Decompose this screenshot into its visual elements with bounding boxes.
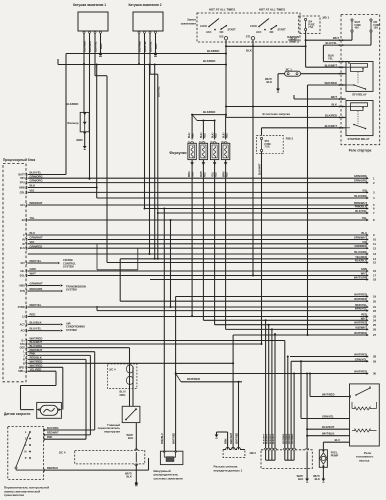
- svg-text:BLK/: BLK/: [189, 132, 191, 138]
- wire WHT/RED from EFI relay: [308, 84, 342, 86]
- svg-text:7.5A: 7.5A: [265, 146, 270, 149]
- svg-text:Процессорный блок: Процессорный блок: [3, 158, 36, 162]
- wire GRN/YEL to connector pin 29: [291, 360, 368, 362]
- svg-text:YEL: YEL: [328, 57, 333, 61]
- wire coil1 pin1 BLK/RED: [83, 33, 85, 63]
- svg-text:ACI: ACI: [20, 330, 25, 333]
- wire BLK/YEL to connector pin 7: [158, 212, 368, 214]
- wire BLK/WHT into fuel pump relay: [307, 428, 349, 430]
- svg-text:7.5A: 7.5A: [308, 26, 313, 29]
- wire coil2 pin4 BRN: [155, 33, 157, 52]
- svg-text:PNK: PNK: [47, 436, 52, 439]
- svg-text:RED: RED: [361, 313, 367, 317]
- svg-text:BLK/YEL: BLK/YEL: [355, 209, 367, 213]
- wire OD2 BLU/ORG to OD switch: [28, 347, 130, 349]
- vacuum distributor of ignition system: [160, 451, 183, 464]
- svg-text:PNK/BLK: PNK/BLK: [355, 205, 367, 209]
- svg-text:SP1: SP1: [20, 177, 25, 180]
- svg-text:LOCK: LOCK: [200, 25, 207, 28]
- svg-text:BLK: BLK: [128, 436, 133, 440]
- svg-text:WHT: WHT: [331, 95, 337, 99]
- wire WHT/BLK J/C1 to ground: [278, 73, 285, 75]
- wires WHT/RED into J/B2: [284, 341, 286, 449]
- wire RED/BLK from trans switch: [44, 469, 149, 471]
- svg-text:BLK: BLK: [315, 477, 320, 481]
- wire ST1 BLK drop: [252, 40, 254, 276]
- svg-text:BRN: BRN: [100, 43, 103, 49]
- svg-text:WHT: WHT: [291, 40, 297, 44]
- svg-text:Фильтр: Фильтр: [67, 121, 78, 125]
- svg-text:OD2: OD2: [20, 347, 26, 350]
- svg-text:VIO/WHT: VIO/WHT: [355, 325, 367, 329]
- svg-text:BLK/RED: BLK/RED: [83, 41, 86, 52]
- svg-text:WHT/RED: WHT/RED: [235, 433, 238, 444]
- terminal ST1: [251, 37, 254, 40]
- ground under filter: [83, 146, 87, 149]
- wire BLK/WHT STA vertical to ECU: [261, 152, 263, 344]
- svg-text:15A: 15A: [374, 27, 379, 30]
- wire HSW BLK join: [28, 187, 97, 189]
- wire BLK/YEL from EFI fuse: [341, 44, 371, 46]
- svg-text:SPD-: SPD-: [19, 366, 25, 369]
- injector feed branches: [192, 115, 197, 121]
- svg-text:RED: RED: [216, 133, 218, 138]
- svg-text:ELS: ELS: [20, 247, 25, 250]
- svg-text:J/B 2: J/B 2: [249, 451, 256, 455]
- svg-text:28: 28: [373, 355, 377, 359]
- svg-text:RED: RED: [227, 133, 229, 138]
- junction HSW on riser x96.7: [96, 187, 98, 189]
- wire VIO/WHT to connector pin 26: [226, 328, 368, 330]
- svg-text:перегрузки: перегрузки: [104, 429, 120, 433]
- svg-text:BLK/ORG: BLK/ORG: [47, 427, 59, 430]
- svg-text:BLU/ORG: BLU/ORG: [354, 250, 367, 254]
- svg-text:BLK/RED: BLK/RED: [138, 41, 141, 52]
- wire BLK/BLU to connector pin 15: [107, 262, 368, 264]
- svg-text:J/C 4: J/C 4: [59, 450, 66, 454]
- wire SPD- to speed sensor: [28, 366, 63, 368]
- overdrive main switch: [122, 406, 140, 422]
- svg-text:Катушка зажигания 2: Катушка зажигания 2: [128, 3, 161, 7]
- junction ST1 on row 17: [252, 275, 254, 277]
- svg-text:START: START: [278, 29, 287, 32]
- svg-text:BLK: BLK: [246, 49, 252, 53]
- svg-text:18: 18: [373, 278, 377, 282]
- wire WHT/BLK to EFI relay: [301, 73, 341, 75]
- svg-text:START: START: [228, 29, 237, 32]
- fuel pump: [319, 450, 327, 468]
- svg-text:GRN/RED: GRN/RED: [354, 244, 367, 248]
- wire WHT: [305, 39, 307, 41]
- wire GRN/YEL into fuel pump relay: [301, 418, 350, 420]
- svg-text:YEL/RED: YEL/RED: [355, 255, 367, 259]
- data link connector 1: [223, 448, 245, 450]
- svg-text:ORG: ORG: [192, 172, 194, 177]
- svg-text:WHT/RED: WHT/RED: [354, 353, 367, 357]
- wire stub row22: [96, 306, 98, 311]
- fuel pump relay coil 1: [355, 407, 370, 410]
- svg-text:P1SW: P1SW: [18, 306, 26, 309]
- wire BLK/RED to starter relay: [226, 116, 341, 118]
- injector 1 down wire: [191, 160, 193, 316]
- injector 2 down wire: [202, 160, 204, 321]
- svg-text:BLK/YEL: BLK/YEL: [149, 41, 152, 52]
- svg-text:ACC: ACC: [256, 31, 262, 34]
- svg-text:15: 15: [373, 261, 377, 265]
- wire WHT to connector pin 24: [203, 319, 368, 321]
- svg-text:BLK/RED: BLK/RED: [203, 59, 215, 63]
- svg-text:BLK/YEL: BLK/YEL: [94, 41, 97, 52]
- svg-text:CRL: CRL: [20, 191, 26, 194]
- wire BLU fuel pump to relay: [322, 442, 324, 450]
- svg-text:BRN/YEL: BRN/YEL: [355, 307, 367, 311]
- svg-text:WHT/RED: WHT/RED: [292, 433, 294, 444]
- svg-text:29: 29: [373, 360, 377, 364]
- svg-text:STARTER RELAY: STARTER RELAY: [348, 137, 370, 141]
- injector outlet arrows: [190, 162, 194, 165]
- svg-text:J/B 1: J/B 1: [322, 16, 330, 20]
- svg-text:WHT/RED: WHT/RED: [283, 433, 285, 444]
- wire GRN/WHT to connector pin 10: [28, 239, 368, 241]
- svg-text:ACT: ACT: [20, 323, 26, 326]
- svg-text:BLK/WHT: BLK/WHT: [270, 433, 272, 444]
- svg-text:RED: RED: [227, 172, 229, 177]
- svg-text:SYSTEM: SYSTEM: [63, 265, 74, 269]
- wire riser x120 row14 to row20: [119, 259, 121, 301]
- wire IG2 BLK/RED drop: [225, 40, 227, 118]
- wire second through J/C4: [132, 367, 134, 407]
- svg-text:WHT/RED: WHT/RED: [173, 433, 176, 444]
- svg-text:24: 24: [373, 319, 377, 323]
- svg-text:RED/WHT: RED/WHT: [230, 432, 233, 444]
- svg-text:HE-: HE-: [20, 270, 24, 273]
- wire BLK/WHT STA fuse to relay: [261, 128, 263, 136]
- ground at coil 2: [154, 53, 157, 56]
- svg-text:В системе запуска: В системе запуска: [263, 112, 291, 116]
- wire BRN/YEL to connector pin 22: [97, 310, 368, 312]
- wire VIO to connector pin 11: [28, 243, 368, 245]
- transmission switch pins: [44, 428, 45, 431]
- svg-text:SPD+: SPD+: [18, 370, 25, 373]
- wire riser x154.7 to row 14: [154, 65, 156, 259]
- svg-text:HOT AT ALL TIMES: HOT AT ALL TIMES: [259, 8, 285, 12]
- wire R RED/BLK riser: [28, 358, 86, 360]
- wire BLK/WHT to EFI relay: [306, 66, 341, 68]
- wire coil1 pin2 BLK/BLU: [89, 33, 91, 179]
- wire BLK/RED injector bus: [192, 114, 226, 116]
- svg-text:BLK/WHT: BLK/WHT: [322, 425, 335, 429]
- svg-text:B: B: [23, 362, 25, 365]
- wire WHT/GRN to connector pin 18: [150, 279, 368, 281]
- svg-text:WHT/RED: WHT/RED: [354, 321, 367, 325]
- svg-text:RED: RED: [216, 172, 218, 177]
- wire J/B2 to ground: [306, 469, 308, 479]
- svg-text:трансмиссии: трансмиссии: [4, 493, 24, 497]
- svg-text:GRN/ORG: GRN/ORG: [354, 174, 367, 178]
- svg-text:AWS: AWS: [19, 285, 25, 288]
- wire WHT/RED to connector pin 20: [120, 300, 368, 302]
- svg-text:P: P: [25, 456, 27, 460]
- svg-text:WHT/RED: WHT/RED: [286, 433, 288, 444]
- svg-text:Катушка зажигания 1: Катушка зажигания 1: [73, 3, 106, 7]
- svg-text:системы зажигания: системы зажигания: [154, 476, 184, 480]
- wire WHT to connector pin 17: [28, 275, 368, 277]
- wire WHT/RED into fuel pump relay: [310, 396, 350, 398]
- svg-text:16: 16: [373, 269, 377, 273]
- junction coil1 pin2 on row SP1: [89, 178, 91, 180]
- svg-text:19: 19: [373, 295, 377, 299]
- noise filter: [83, 65, 85, 113]
- svg-text:BLK/RED: BLK/RED: [207, 49, 219, 53]
- svg-text:27: 27: [373, 333, 377, 337]
- fuel pump relay coil 2: [355, 429, 370, 432]
- wire PNK/BLU riser to distributor: [163, 209, 165, 452]
- svg-text:BLK/WHT: BLK/WHT: [273, 433, 275, 444]
- svg-text:BLK: BLK: [127, 475, 132, 479]
- ground near data link: [215, 435, 219, 438]
- svg-text:BLK/BLU: BLK/BLU: [89, 41, 92, 52]
- wire VIO to connector pin 3: [28, 191, 368, 193]
- wire ACT to air conditioning system: [28, 323, 60, 325]
- svg-text:RED: RED: [204, 133, 206, 138]
- wire BLK/WHT from IG4 fuse: [305, 31, 307, 68]
- fuse WHT 40A: [351, 19, 353, 21]
- svg-text:ORG: ORG: [120, 393, 126, 397]
- wire 2 PNK riser: [28, 354, 91, 356]
- svg-text:RED: RED: [204, 172, 206, 177]
- wire WHT/RED to connector pin 27: [233, 334, 368, 336]
- svg-text:40A: 40A: [355, 27, 360, 30]
- wire STA BLK/WHT row: [28, 343, 262, 345]
- junction block J/B no.1: [299, 16, 320, 34]
- svg-text:RED/WHT: RED/WHT: [47, 432, 59, 435]
- wire ACI to air conditioning system: [28, 330, 60, 332]
- wire BLK/WHT to starter relay: [262, 127, 342, 129]
- svg-text:BRN/WHT: BRN/WHT: [354, 201, 367, 205]
- injector 4 down wire: [225, 160, 227, 330]
- wire IGT to cruise control system: [28, 262, 57, 264]
- svg-text:Реле стартера: Реле стартера: [349, 149, 372, 153]
- svg-text:BLU: BLU: [335, 438, 340, 442]
- wire WHT/RED to connector pin 28: [290, 356, 368, 358]
- svg-text:BLK/WHT: BLK/WHT: [267, 433, 269, 444]
- wire B+ WHT/RED row: [28, 340, 285, 342]
- speed sensor: [37, 402, 62, 418]
- wire BLK/RED bus upper: [66, 53, 226, 55]
- junction coil2 BLK/YEL on row 7: [157, 212, 159, 214]
- svg-text:STA: STA: [20, 343, 25, 346]
- wire L RED/WHT riser: [28, 351, 95, 353]
- svg-text:WHT/RED: WHT/RED: [187, 377, 200, 381]
- svg-text:J/C 4: J/C 4: [109, 368, 116, 372]
- svg-text:SYSTEM: SYSTEM: [66, 288, 77, 292]
- svg-text:LOCK: LOCK: [250, 25, 257, 28]
- fuse IG4 7.5A: [305, 18, 307, 20]
- svg-text:12: 12: [373, 246, 377, 250]
- svg-text:WHT: WHT: [361, 272, 368, 276]
- svg-text:WHT/RED: WHT/RED: [354, 331, 367, 335]
- svg-text:Датчик скорости: Датчик скорости: [4, 412, 30, 416]
- wire WHT/RED to connector pin 19: [176, 296, 368, 298]
- wire WHT/BLK into fuel pump relay: [307, 435, 349, 437]
- svg-text:TFN: TFN: [20, 290, 25, 293]
- svg-text:SOL: SOL: [20, 275, 26, 278]
- wire BLK/RED bus lower: [58, 64, 226, 66]
- wire BATT join: [28, 174, 66, 176]
- wire WHT/RED to data link: [238, 382, 240, 450]
- svg-text:RED/BLK: RED/BLK: [47, 467, 58, 470]
- wire BLK to starter relay: [226, 106, 341, 108]
- wire WHT/RED long vertical: [307, 85, 309, 335]
- svg-text:RED/YEL: RED/YEL: [355, 303, 367, 307]
- ground under fuel pump: [322, 479, 326, 482]
- wire WHT/RED riser to distributor: [175, 297, 177, 452]
- wire RED/WHT to data link: [232, 335, 234, 450]
- svg-text:BLK/WHT: BLK/WHT: [325, 124, 338, 128]
- wire RED/YEL to connector pin 21: [28, 306, 368, 308]
- svg-text:BLU: BLU: [361, 231, 367, 235]
- svg-text:WHT: WHT: [333, 36, 339, 40]
- svg-text:GRN/WHT: GRN/WHT: [354, 236, 367, 240]
- svg-text:HOT AT ALL TIMES: HOT AT ALL TIMES: [209, 8, 235, 12]
- wire WHT/BLK to ground under OD switch: [135, 464, 137, 482]
- wire coil2 pin3 BLK/YEL: [149, 33, 151, 74]
- svg-text:WHT: WHT: [361, 316, 368, 320]
- svg-text:передачи данных 1: передачи данных 1: [214, 468, 243, 472]
- svg-text:BLK/RED: BLK/RED: [203, 110, 215, 114]
- injector 3 down wire: [214, 160, 216, 325]
- svg-text:ACC: ACC: [206, 31, 212, 34]
- wire BLU to connector pin 9: [28, 234, 368, 236]
- svg-text:BLK/: BLK/: [212, 132, 214, 138]
- svg-text:BATT: BATT: [18, 174, 25, 177]
- svg-text:BLK/WHT: BLK/WHT: [325, 63, 338, 67]
- svg-text:WHT/RED: WHT/RED: [324, 81, 337, 85]
- svg-text:насоса: насоса: [359, 458, 370, 462]
- wire GRN/RED to connector pin 12: [28, 247, 368, 249]
- svg-text:ON: ON: [270, 31, 274, 34]
- svg-text:13: 13: [373, 252, 377, 256]
- wire WHT/RED to connector pin 30: [176, 373, 368, 375]
- J/B2 pin bumps: [264, 448, 267, 450]
- svg-text:N: N: [25, 450, 27, 454]
- wire GRN/ORG to connector pin 1: [28, 177, 368, 179]
- svg-text:Форсунки: Форсунки: [169, 151, 186, 155]
- wire riser x170.5 row8 to row21: [170, 220, 172, 307]
- wire YEL/RED to connector pin 14: [120, 258, 368, 260]
- ground under J/C1: [276, 89, 280, 92]
- svg-text:WHT/RED: WHT/RED: [354, 293, 367, 297]
- svg-text:SYSTEM: SYSTEM: [66, 328, 77, 332]
- svg-text:IN: IN: [22, 239, 25, 242]
- harness dashed box right: [341, 15, 380, 145]
- svg-text:GRN/YEL: GRN/YEL: [322, 414, 334, 418]
- wire WHT/BLK from OD switch: [135, 423, 137, 451]
- wire coil2 pin1 BLK/RED: [138, 33, 140, 63]
- wire WHT/RED branch bus: [176, 374, 181, 382]
- wire coil1 pin4 BRN: [100, 33, 102, 52]
- wire TFN to transmission system: [28, 290, 60, 292]
- svg-text:R/B 3: R/B 3: [286, 137, 294, 141]
- fuse STA 7.5A in R/B no.3: [257, 136, 284, 154]
- svg-text:BLK/YEL: BLK/YEL: [157, 86, 160, 97]
- svg-text:BLK/WHT: BLK/WHT: [264, 433, 266, 444]
- svg-text:зажигания: зажигания: [181, 22, 197, 26]
- svg-text:BRN: BRN: [155, 43, 158, 49]
- wire drop x96.7: [96, 65, 98, 199]
- svg-text:22: 22: [373, 309, 377, 313]
- svg-text:11: 11: [373, 242, 376, 246]
- wire SPD+ loop to speed sensor: [28, 370, 56, 372]
- svg-text:GRN/ORG: GRN/ORG: [354, 179, 367, 183]
- EFI relay: [346, 62, 373, 92]
- terminal IG2: [224, 37, 227, 40]
- wire drop to ECU BATT: [65, 54, 67, 175]
- svg-text:PUMP: PUMP: [331, 454, 339, 458]
- wire BLK/WHT switch feed: [226, 45, 306, 47]
- wire PNK/BLK to connector pin 6: [145, 208, 369, 210]
- wire RED to connector pin 23: [28, 316, 368, 318]
- svg-text:BLK: BLK: [298, 477, 303, 481]
- svg-text:WHT/GRN: WHT/GRN: [354, 276, 367, 280]
- svg-text:BLK/WHT: BLK/WHT: [258, 163, 261, 175]
- svg-text:FPU: FPU: [20, 182, 25, 185]
- wire coil2 pin2 BRN/YEL: [144, 33, 146, 208]
- J/B2 bus bar 1: [265, 450, 267, 460]
- wire filter BRN to ground: [84, 132, 86, 146]
- wire coil1 pin3 BLK/YEL: [94, 33, 96, 75]
- svg-text:BLK/BLU: BLK/BLU: [355, 259, 367, 263]
- svg-text:WHT/RED: WHT/RED: [354, 297, 367, 301]
- fuse EFI 15A: [370, 19, 372, 21]
- svg-text:BLK/RED: BLK/RED: [66, 102, 78, 106]
- svg-text:BLK/ORG: BLK/ORG: [354, 194, 367, 198]
- svg-text:BRN/: BRN/: [189, 171, 191, 177]
- svg-text:HSW: HSW: [19, 187, 25, 190]
- fuel pump relay: [350, 384, 380, 446]
- svg-text:WHT/RED: WHT/RED: [322, 392, 335, 396]
- wire AWS to transmission system: [28, 285, 60, 287]
- svg-text:BRN/YEL: BRN/YEL: [144, 41, 147, 52]
- svg-text:R: R: [23, 358, 25, 361]
- svg-text:30: 30: [373, 372, 377, 376]
- svg-text:BLK/YEL: BLK/YEL: [326, 41, 338, 45]
- wire YEL to connector pin 8: [28, 219, 368, 221]
- transmission indicator switch box: [8, 427, 44, 480]
- starter relay: [346, 101, 373, 136]
- junction coil2 pin2 on row PNK/BLK: [144, 208, 146, 210]
- svg-text:RED: RED: [192, 133, 194, 138]
- wire BRN from data link to ground: [227, 432, 229, 450]
- ground under OD switch: [135, 482, 138, 485]
- svg-text:IG2: IG2: [219, 35, 224, 39]
- wires BLK/WHT into J/B2: [265, 320, 267, 448]
- wire J/B2 right riser: [306, 374, 308, 449]
- wire B WHT/RED join to data link riser: [28, 362, 233, 364]
- svg-text:20: 20: [373, 299, 377, 303]
- svg-text:WHT/BLK: WHT/BLK: [322, 432, 334, 436]
- svg-text:25: 25: [373, 323, 377, 327]
- svg-text:GRN/YEL: GRN/YEL: [355, 357, 368, 361]
- ground at coil 1: [99, 53, 102, 56]
- svg-text:BLK: BLK: [267, 80, 273, 84]
- wire riser x149.5 to row 13: [149, 65, 151, 255]
- wire BRN/WHT to connector pin 5: [28, 204, 368, 206]
- wire fuel pump to ground: [322, 467, 324, 478]
- svg-text:BLK/: BLK/: [201, 132, 203, 138]
- svg-text:BLK: BLK: [331, 103, 337, 107]
- svg-text:BLK/RED: BLK/RED: [325, 113, 337, 117]
